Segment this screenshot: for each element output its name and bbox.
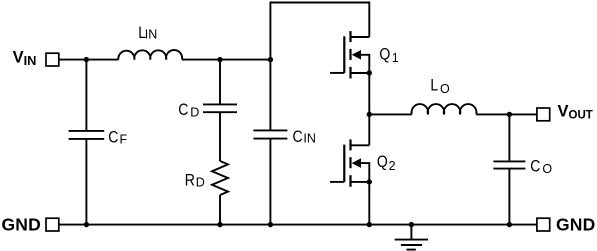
terminal VOUT	[537, 108, 550, 121]
svg-text:Q: Q	[379, 46, 390, 64]
node Q1 source	[367, 70, 372, 75]
svg-text:D: D	[190, 106, 199, 120]
label LO	[430, 76, 450, 96]
label RD	[185, 172, 205, 190]
wire CF branch upper	[85, 60, 87, 131]
node A	[84, 57, 89, 62]
node CO bottom	[507, 222, 512, 227]
label Q2	[377, 153, 396, 173]
svg-text:IN: IN	[303, 131, 316, 145]
wire switch node to LO	[369, 113, 412, 115]
node RD bottom	[217, 222, 222, 227]
terminal GND right	[537, 218, 550, 231]
svg-text:VOUT: VOUT	[558, 103, 593, 122]
wire CIN branch lower	[269, 139, 271, 225]
svg-text:O: O	[542, 162, 552, 176]
wire Q2 source to bottom rail	[368, 182, 370, 225]
label CO	[530, 157, 552, 175]
svg-text:GND: GND	[2, 214, 42, 234]
node CF bottom	[84, 222, 89, 227]
resistor RD	[212, 161, 228, 195]
capacitor CF	[69, 131, 105, 139]
capacitor CD	[203, 104, 237, 112]
terminal VIN	[46, 53, 59, 66]
wire CF branch lower	[85, 139, 87, 225]
wire LO to VOUT	[476, 113, 536, 115]
capacitor CO	[493, 161, 525, 168]
wire bottom rail	[59, 224, 536, 226]
label Q1	[379, 46, 398, 65]
wire switch node to Q2 drain	[368, 114, 370, 145]
wire LIN to node C	[182, 59, 270, 61]
svg-text:C: C	[530, 157, 540, 175]
node switch	[367, 112, 372, 117]
svg-text:2: 2	[389, 159, 396, 173]
wire VIN to node A	[59, 59, 118, 61]
svg-text:Q: Q	[377, 153, 388, 171]
svg-text:IN: IN	[145, 28, 158, 42]
label CF	[108, 128, 127, 146]
svg-text:C: C	[178, 101, 188, 119]
wire CO branch lower	[508, 169, 510, 225]
svg-text:L: L	[430, 76, 438, 94]
node CIN bottom	[268, 222, 273, 227]
svg-text:VIN: VIN	[13, 49, 37, 68]
transistor Q1	[330, 31, 369, 78]
svg-text:R: R	[185, 172, 195, 190]
node C	[268, 57, 273, 62]
svg-text:O: O	[440, 82, 450, 96]
svg-text:F: F	[120, 133, 128, 147]
wire CO branch upper	[508, 114, 510, 161]
wire CIN branch upper	[269, 60, 271, 131]
wire CD branch upper	[219, 60, 221, 105]
node ground	[409, 222, 414, 227]
node Q2 source	[367, 179, 372, 184]
node output	[507, 112, 512, 117]
node Q2 bottom	[367, 222, 372, 227]
svg-text:C: C	[293, 128, 303, 146]
capacitor CIN	[253, 130, 287, 138]
svg-text:1: 1	[392, 51, 399, 65]
svg-text:GND: GND	[556, 214, 596, 234]
ground	[395, 225, 428, 250]
terminal GND left	[46, 218, 59, 231]
label LIN	[138, 24, 157, 42]
svg-text:C: C	[108, 128, 118, 146]
node B	[217, 57, 222, 62]
wire top loop	[270, 3, 369, 60]
transistor Q2	[330, 139, 369, 186]
label CD	[178, 101, 199, 119]
svg-text:D: D	[196, 176, 205, 190]
wire CD to RD	[219, 112, 221, 161]
inductor LO	[412, 104, 477, 114]
wire Q1 source to switch node	[368, 73, 370, 114]
label CIN	[293, 128, 316, 146]
inductor LIN	[118, 50, 182, 60]
wire RD to bottom rail	[219, 195, 221, 225]
